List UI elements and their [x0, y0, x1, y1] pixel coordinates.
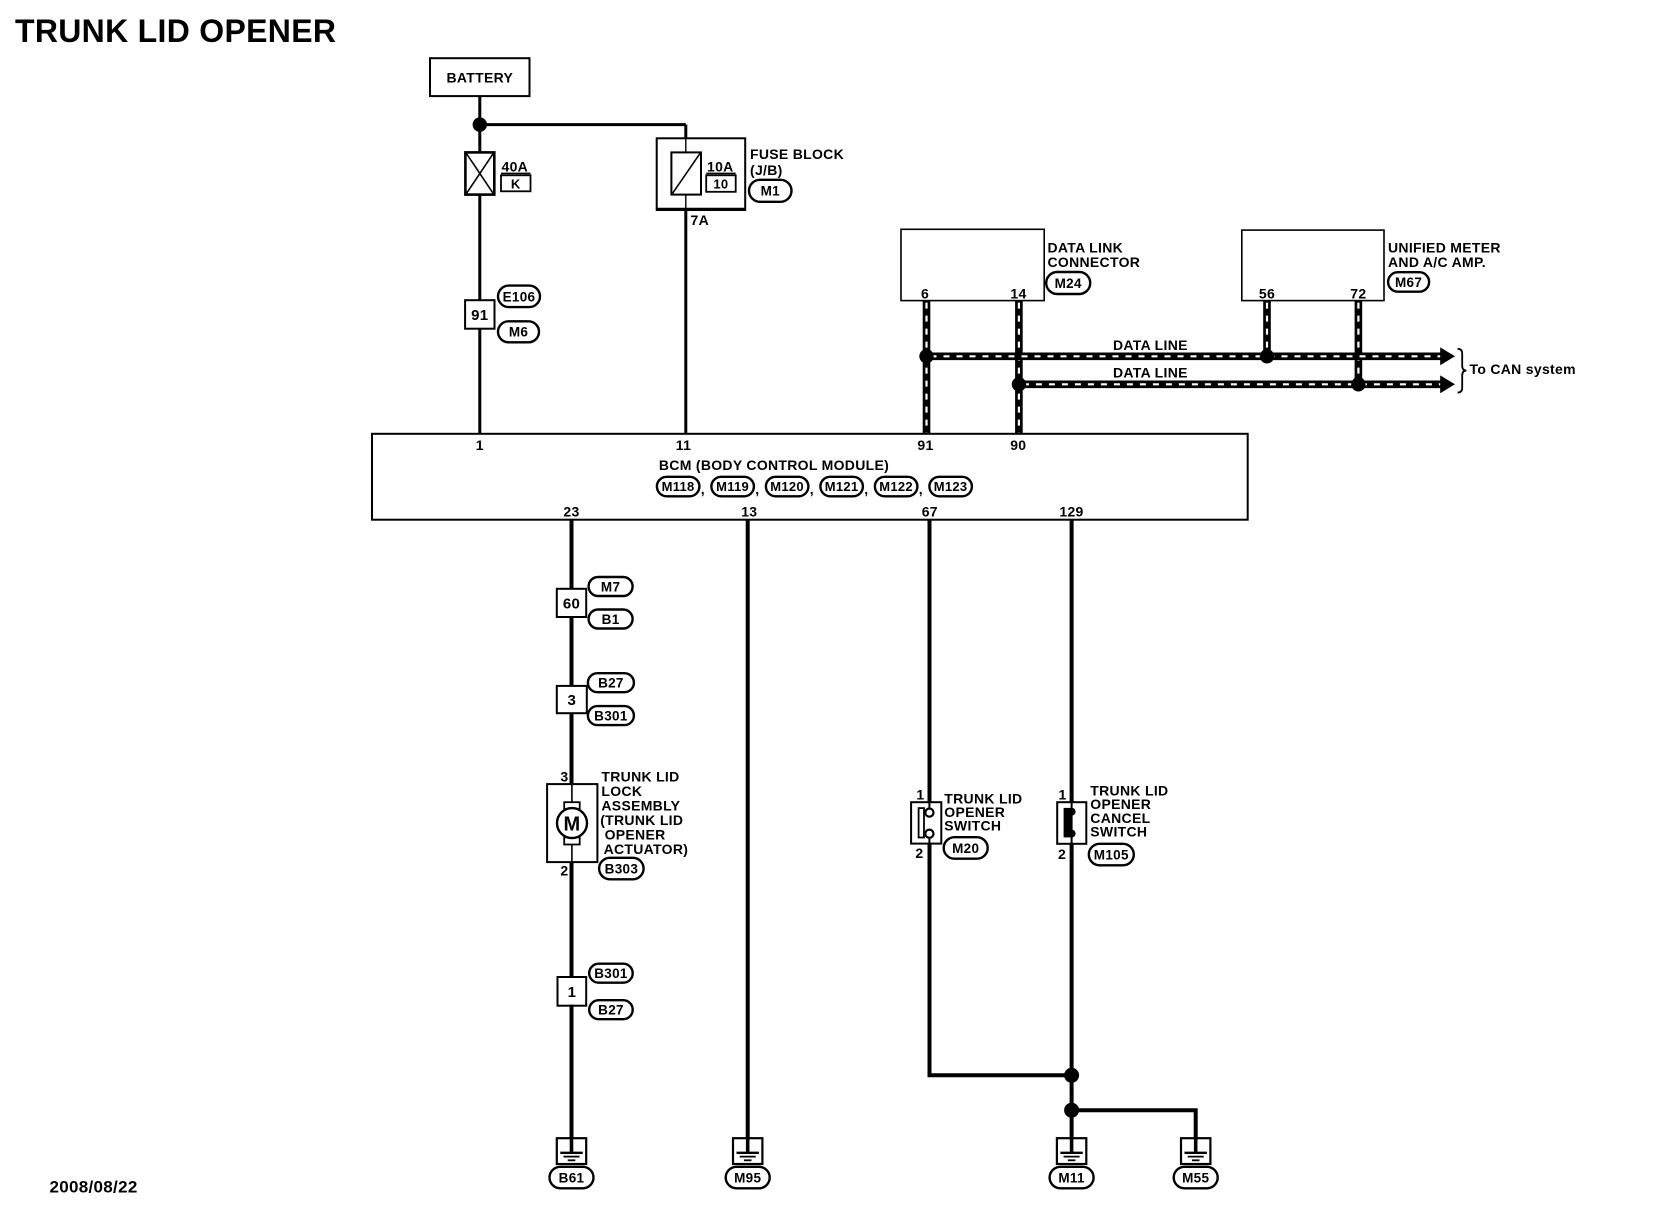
BCM (body control module) — [372, 434, 1248, 520]
trunk lid lock assembly motor — [547, 784, 597, 862]
svg-text:E106: E106 — [503, 289, 536, 304]
connector 60 — [557, 589, 586, 617]
switch ref M105 — [1089, 844, 1134, 866]
svg-text:M1: M1 — [761, 184, 781, 199]
battery — [430, 58, 530, 96]
svg-text:13: 13 — [741, 503, 757, 519]
svg-text:FUSE BLOCK: FUSE BLOCK — [750, 146, 844, 162]
svg-text:M67: M67 — [1395, 275, 1422, 290]
svg-text:M7: M7 — [601, 579, 620, 594]
svg-text:AND A/C AMP.: AND A/C AMP. — [1388, 254, 1486, 270]
UM ref M67 — [1388, 272, 1429, 292]
connector 3 — [557, 686, 587, 713]
fuse block ref M1 — [749, 180, 792, 202]
wire UM pin 72 to data line 2 — [1355, 301, 1363, 385]
ground M55 — [1181, 1138, 1210, 1164]
connector 1 — [558, 977, 587, 1006]
wire BCM pin 67 to switch M20 — [928, 520, 932, 803]
svg-text:91: 91 — [917, 437, 933, 453]
ground B61 — [557, 1138, 586, 1164]
svg-text:K: K — [511, 176, 521, 191]
svg-text:10: 10 — [713, 177, 728, 192]
wire BCM pin 13 to ground M95 — [746, 520, 750, 1153]
BCM ref M123 — [929, 477, 972, 497]
svg-text:,: , — [755, 481, 759, 497]
ground M95 ref M95 — [726, 1167, 770, 1189]
svg-text:7A: 7A — [691, 212, 710, 228]
wire connector 91 to BCM pin 1 — [478, 329, 481, 434]
svg-text:,: , — [701, 481, 705, 497]
svg-text:,: , — [810, 481, 814, 497]
connector ref B27 upper — [588, 673, 634, 692]
svg-text:B1: B1 — [602, 612, 620, 627]
svg-text:2008/08/22: 2008/08/22 — [50, 1178, 138, 1197]
wire drop into fuse block — [684, 125, 687, 139]
connector ref E106 — [498, 286, 540, 308]
wire DLC pin 14 to BCM pin 90 — [1015, 301, 1023, 434]
svg-text:90: 90 — [1010, 437, 1026, 453]
svg-text:40A: 40A — [502, 158, 529, 174]
svg-text:56: 56 — [1259, 286, 1275, 302]
wire junction to ground M55 — [1072, 1110, 1196, 1152]
wire connector 60 to connector 3 — [570, 616, 574, 687]
connector ref B1 — [589, 610, 633, 629]
svg-text:DATA LINE: DATA LINE — [1113, 364, 1188, 380]
wire BCM pin 129 to cancel switch M105 — [1070, 520, 1074, 803]
wire connector 3 to trunk lid lock — [570, 712, 574, 784]
connector ref M7 — [589, 577, 633, 596]
svg-text:M105: M105 — [1094, 847, 1129, 862]
svg-text:SWITCH: SWITCH — [1090, 824, 1147, 840]
svg-text:,: , — [864, 481, 868, 497]
svg-text:2: 2 — [560, 863, 568, 879]
svg-text:B61: B61 — [559, 1170, 585, 1185]
svg-text:M11: M11 — [1058, 1170, 1085, 1185]
unified meter and a/c amp M67 — [1242, 230, 1384, 301]
connector ref B27 lower — [589, 1000, 633, 1019]
svg-text:B301: B301 — [594, 966, 628, 981]
svg-text:M121: M121 — [825, 479, 859, 494]
svg-text:3: 3 — [567, 692, 576, 709]
svg-text:2: 2 — [1058, 846, 1066, 862]
BCM ref M120 — [766, 477, 809, 497]
svg-text:ACTUATOR): ACTUATOR) — [604, 841, 689, 857]
svg-text:60: 60 — [563, 595, 580, 612]
brace to CAN system — [1458, 349, 1467, 393]
svg-text:14: 14 — [1010, 286, 1026, 302]
svg-text:1: 1 — [476, 437, 484, 453]
svg-text:B27: B27 — [598, 676, 624, 691]
svg-text:91: 91 — [471, 307, 488, 324]
svg-text:M24: M24 — [1055, 276, 1082, 291]
BCM ref M118 — [657, 477, 700, 497]
wire connector 1 to ground B61 — [570, 1005, 574, 1153]
svg-text:TRUNK LID OPENER: TRUNK LID OPENER — [15, 13, 336, 49]
data link connector M24 — [901, 229, 1044, 300]
svg-text:M122: M122 — [879, 479, 913, 494]
svg-text:,: , — [919, 481, 923, 497]
svg-text:M119: M119 — [716, 479, 749, 494]
svg-text:1: 1 — [1059, 787, 1067, 803]
data line 2 arrowhead — [1440, 375, 1455, 393]
motor ref B303 — [599, 858, 644, 880]
wire switch M20 to junction — [930, 844, 1072, 1076]
junction node data line 1 / pin 56 — [1260, 349, 1274, 363]
svg-text:M55: M55 — [1182, 1170, 1209, 1185]
svg-text:6: 6 — [921, 286, 929, 302]
data line 1 arrowhead — [1440, 347, 1455, 365]
wire cancel switch to ground M11 — [1070, 844, 1074, 1153]
svg-text:B27: B27 — [598, 1003, 624, 1018]
svg-text:67: 67 — [922, 503, 938, 519]
wire fusible link to connector 91 — [478, 195, 481, 302]
data line 1 — [927, 352, 1442, 360]
ground M95 — [733, 1138, 762, 1164]
svg-text:11: 11 — [676, 437, 691, 453]
fusible link 40A K — [465, 152, 530, 194]
svg-text:M120: M120 — [770, 479, 804, 494]
svg-text:M118: M118 — [662, 479, 695, 494]
wire BCM pin 23 to connector 60 — [570, 520, 574, 589]
svg-text:CONNECTOR: CONNECTOR — [1048, 254, 1141, 270]
trunk lid opener cancel switch M105 — [1057, 802, 1086, 844]
junction node ground branch — [1064, 1103, 1079, 1118]
BCM ref M119 — [711, 477, 754, 497]
connector ref M6 — [498, 321, 539, 342]
svg-text:10A: 10A — [707, 158, 734, 174]
svg-text:23: 23 — [563, 503, 579, 519]
wire DLC pin 6 to BCM pin 91 — [923, 301, 931, 434]
svg-text:B303: B303 — [605, 861, 639, 876]
junction node battery feed — [473, 117, 487, 131]
svg-text:1: 1 — [568, 984, 577, 1001]
svg-text:To CAN system: To CAN system — [1470, 361, 1576, 377]
junction node data line 2 / pin 72 — [1351, 377, 1365, 391]
ground M55 ref M55 — [1174, 1167, 1218, 1189]
svg-text:(J/B): (J/B) — [750, 162, 783, 178]
trunk lid opener switch M20 — [911, 802, 941, 843]
ground M11 ref M11 — [1050, 1167, 1094, 1189]
svg-text:129: 129 — [1059, 503, 1083, 519]
junction node data line 2 / pin 14 — [1012, 377, 1026, 391]
connector 91 — [465, 300, 494, 329]
svg-text:3: 3 — [560, 769, 568, 785]
svg-text:M95: M95 — [734, 1170, 761, 1185]
svg-text:BATTERY: BATTERY — [446, 69, 513, 85]
wire trunk lid lock to connector 1 — [570, 862, 574, 978]
ground B61 ref B61 — [550, 1167, 594, 1189]
svg-text:2: 2 — [915, 845, 923, 861]
svg-text:M6: M6 — [509, 325, 529, 340]
junction node switch wires — [1064, 1068, 1079, 1083]
wire UM pin 56 to data line 1 — [1263, 301, 1271, 357]
svg-text:DATA LINE: DATA LINE — [1113, 337, 1188, 353]
svg-text:M20: M20 — [952, 841, 979, 856]
svg-text:M123: M123 — [934, 479, 968, 494]
switch ref M20 — [944, 837, 988, 859]
data line 2 — [1019, 380, 1442, 388]
wire battery to junction — [478, 96, 481, 125]
fuse block J/B M1 — [657, 138, 746, 210]
DLC ref M24 — [1046, 272, 1090, 294]
connector ref B301 lower — [589, 964, 633, 983]
junction node data line 1 / pin 6 — [919, 349, 933, 363]
connector ref B301 upper — [588, 706, 634, 725]
svg-text:B301: B301 — [594, 709, 628, 724]
svg-text:72: 72 — [1350, 286, 1366, 302]
BCM ref M121 — [820, 477, 863, 497]
wire junction to fuse block drop — [480, 123, 686, 126]
svg-text:SWITCH: SWITCH — [944, 818, 1001, 834]
BCM ref M122 — [875, 477, 918, 497]
wire junction to fusible link — [478, 125, 481, 153]
svg-text:1: 1 — [916, 787, 924, 803]
svg-text:M: M — [564, 813, 581, 835]
svg-text:BCM (BODY CONTROL MODULE): BCM (BODY CONTROL MODULE) — [659, 457, 889, 473]
ground M11 — [1057, 1138, 1086, 1164]
wire fuse block to BCM pin 11 — [684, 209, 687, 433]
